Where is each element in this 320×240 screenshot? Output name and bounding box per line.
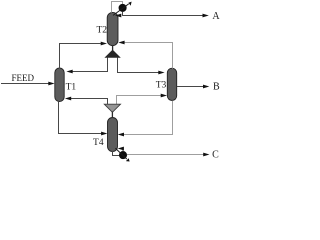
node arrowhead into T4 left [101,132,107,136]
wire reflux into T2 shoulder [120,15,123,17]
wire condenser inlet loop from T2 top [112,2,123,13]
wire product A line [122,15,203,17]
svg-text:T3: T3 [156,81,167,91]
wire boilup return into T4 right [122,149,123,152]
node arrowhead to C [203,153,209,157]
wire condenser outlet drop [122,12,124,16]
node arrowhead into T1 upper right [66,70,72,74]
wire product B line [177,86,204,88]
wire reboiler pipe from T4 bottom [113,151,120,156]
node liquid splitter triangle under T2 [104,50,120,58]
svg-text:T1: T1 [66,83,77,93]
node vapor splitter triangle above T4 [104,104,120,112]
wire vapor from T4 splitter to T1 bottom [71,99,108,105]
column T2 [107,12,118,45]
node arrowhead into T3 lower left [161,94,167,98]
svg-text:T4: T4 [93,138,104,148]
wire T2 bottom stem [112,45,114,50]
svg-text:A: A [212,11,220,22]
wire T1 top to T2 left [60,44,102,69]
column T3 [167,68,176,100]
node condenser utility diagonal arrow [113,4,129,16]
wire feed line [1,83,50,85]
wire T3 bottom loop to T4 right [124,101,173,135]
wire vapor from T4 splitter to T3 bottom [117,96,162,105]
node arrowhead into T3 upper left [158,71,164,75]
wire T3 top to T2 right [125,43,173,69]
svg-text:T2: T2 [96,26,107,36]
node FEED arrowhead into T1 [48,82,54,86]
capacitor reboiler circle [119,151,127,159]
svg-text:FEED: FEED [12,73,35,83]
node arrowhead to B [203,85,209,89]
wire T4 top stem [111,111,113,118]
node arrowhead to A [203,14,209,18]
column T1 [55,68,64,102]
wire product C line [127,154,204,156]
wire T1 bottom loop to T4 left [59,102,102,134]
wire left downcomer to T1 top [72,58,107,72]
wire right downcomer to T3 top [118,58,159,73]
svg-text:B: B [213,82,220,93]
column T4 [108,118,118,152]
node arrowhead into T2 left [101,42,107,46]
node arrowhead into T2 right [118,41,124,45]
capacitor condenser circle [119,4,127,12]
node arrowhead into T4 right [118,133,124,137]
node reboiler utility diagonal arrow [115,148,126,159]
svg-text:C: C [212,150,219,161]
node arrowhead into T1 lower right [65,97,71,101]
